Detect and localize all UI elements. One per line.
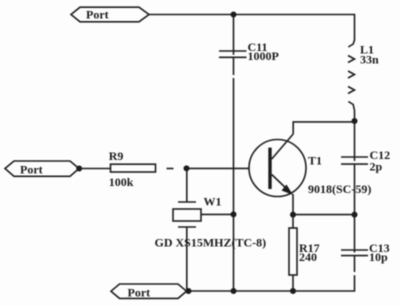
wire L1 bottom lead xyxy=(354,111,356,122)
svg-text:Port: Port xyxy=(128,285,151,299)
resistor R9 xyxy=(109,149,156,189)
port Port (left) xyxy=(5,161,79,176)
wire crystal bottom lead xyxy=(186,227,188,291)
capacitor C13 xyxy=(341,241,390,272)
port Port (bottom) xyxy=(111,284,187,299)
node left port junction xyxy=(76,166,82,172)
wire rail to C13 xyxy=(354,215,356,253)
capacitor C11 xyxy=(219,40,279,75)
svg-text:10p: 10p xyxy=(369,250,388,264)
svg-text:33n: 33n xyxy=(360,53,379,67)
port Port (top) xyxy=(71,7,149,22)
wire rail to C12 xyxy=(354,122,356,161)
node emitter junction xyxy=(290,212,296,218)
wire crystal to rail xyxy=(201,213,234,215)
wire dashed R9 to base node xyxy=(167,168,174,170)
wire top net xyxy=(149,15,355,41)
svg-text:2p: 2p xyxy=(370,159,383,173)
svg-text:Port: Port xyxy=(20,162,43,176)
svg-text:Port: Port xyxy=(86,8,109,22)
node emitter-net junction xyxy=(352,212,358,218)
wire bottom right corner xyxy=(187,275,355,291)
node R17 bottom junction xyxy=(290,288,296,294)
crystal W1 xyxy=(155,168,267,249)
svg-text:T1: T1 xyxy=(308,154,322,168)
node rail bottom junction xyxy=(231,288,237,294)
svg-text:100k: 100k xyxy=(109,175,134,189)
node top junction xyxy=(231,12,237,18)
inductor L1 xyxy=(348,40,379,111)
resistor R17 xyxy=(289,215,320,291)
wire emitter junction to rail xyxy=(294,214,355,216)
svg-text:9018(SC-59): 9018(SC-59) xyxy=(308,182,371,196)
wire C11 top lead xyxy=(233,15,235,55)
wire port to R9 xyxy=(79,168,110,170)
wire base wire xyxy=(187,167,250,169)
transistor T1 xyxy=(249,134,371,197)
svg-text:240: 240 xyxy=(299,250,317,264)
wire C12 bottom to junction xyxy=(354,164,356,215)
capacitor C12 xyxy=(341,148,390,173)
node base junction xyxy=(184,165,190,171)
wire collector to rail xyxy=(293,122,354,134)
node collector junction xyxy=(352,118,358,124)
svg-text:W1: W1 xyxy=(204,194,222,208)
node crystal-rail junction xyxy=(231,211,237,217)
svg-text:R9: R9 xyxy=(109,149,124,163)
svg-text:1000P: 1000P xyxy=(248,49,279,63)
node bottom port junction xyxy=(186,288,192,294)
wire left vertical rail xyxy=(233,78,235,291)
wire emitter lead xyxy=(292,194,294,215)
svg-text:GD XS15MHZ(TC-8): GD XS15MHZ(TC-8) xyxy=(155,235,267,249)
